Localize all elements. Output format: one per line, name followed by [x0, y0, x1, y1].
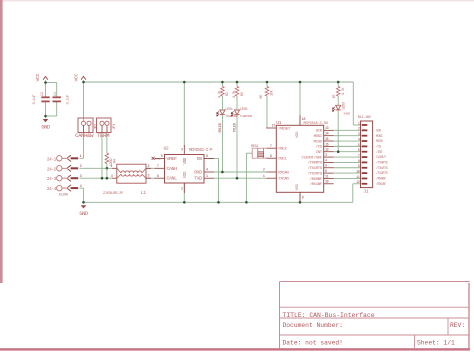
connector pin 24-2 — [47, 165, 82, 172]
svg-text:GND: GND — [41, 124, 50, 131]
wire OSC1 net: resonator to U1 OSC1 — [252, 157, 266, 159]
IC U2 MCP2551 CAN transceiver — [155, 145, 215, 193]
svg-text:VDD: VDD — [183, 157, 188, 164]
power VCC symbol P+2 — [74, 73, 86, 81]
svg-text:/TX2RTS: /TX2RTS — [376, 171, 388, 175]
resonator RES1 on U1 oscillator pins — [251, 145, 264, 158]
svg-text:RXD: RXD — [194, 170, 202, 176]
svg-text:OSC1: OSC1 — [278, 158, 287, 162]
svg-text:VDD: VDD — [296, 131, 300, 138]
svg-text:24-3: 24-3 — [47, 177, 57, 182]
svg-text:TITLE: CAN-Bus-Interface: TITLE: CAN-Bus-Interface — [283, 312, 375, 319]
IC U1 MCP2515 CAN controller — [263, 115, 334, 202]
svg-text:VCC: VCC — [35, 73, 41, 81]
no-connect marker on U2 VREF pin 5 — [152, 154, 163, 161]
svg-text:16: 16 — [325, 142, 329, 146]
resistor R2 4.7k RXLED pullup — [217, 86, 230, 98]
svg-text:REV:: REV: — [450, 322, 465, 329]
node net labels at J1 — [376, 128, 388, 185]
svg-text:/CS: /CS — [316, 145, 323, 150]
svg-text:11: 11 — [356, 175, 360, 179]
svg-text:/RX0BF: /RX0BF — [310, 177, 323, 182]
jumper JP2 CANH&W — [75, 118, 98, 139]
svg-text:CLKOUT: CLKOUT — [376, 155, 386, 159]
svg-text:TERM: TERM — [97, 132, 110, 139]
svg-text:C2: C2 — [41, 92, 45, 96]
svg-text:10: 10 — [356, 170, 360, 174]
svg-text:24-4: 24-4 — [47, 187, 57, 192]
svg-text:/CS: /CS — [376, 144, 381, 148]
svg-text:GND: GND — [79, 210, 88, 217]
LED LED2 TX activity — [231, 96, 252, 118]
svg-text:/RX1BF: /RX1BF — [376, 182, 386, 186]
svg-text:VREF: VREF — [167, 156, 178, 162]
svg-text:4.7k: 4.7k — [217, 91, 222, 98]
svg-text:SCK: SCK — [316, 130, 323, 134]
svg-text:INT: INT — [316, 151, 323, 155]
svg-text:R2: R2 — [226, 92, 230, 96]
svg-text:/RX1BF: /RX1BF — [310, 182, 323, 187]
svg-text:0.1uF: 0.1uF — [67, 95, 71, 105]
svg-text:SCK: SCK — [376, 128, 381, 132]
svg-text:XL200: XL200 — [59, 194, 68, 198]
svg-text:TLHR5400: TLHR5400 — [240, 115, 252, 118]
wire INT LED tap — [337, 110, 340, 153]
node RXLED net label — [219, 123, 223, 132]
svg-text:MISO: MISO — [314, 140, 323, 144]
svg-text:R3: R3 — [241, 92, 245, 96]
svg-text:CANL: CANL — [167, 176, 178, 182]
svg-text:R4: R4 — [113, 159, 117, 163]
svg-text:RXLED: RXLED — [219, 123, 223, 132]
svg-text:MOSI: MOSI — [376, 134, 383, 138]
wire GND net: bottom ground run — [79, 153, 361, 203]
svg-text:U2: U2 — [164, 146, 169, 152]
svg-text:2: 2 — [80, 165, 82, 169]
wire jumper JP1 to termination resistor — [106, 133, 108, 154]
svg-text:12: 12 — [325, 148, 329, 152]
svg-text:MOSI: MOSI — [314, 135, 322, 139]
svg-text:TXLED: TXLED — [234, 123, 238, 132]
svg-text:24-2: 24-2 — [47, 167, 57, 172]
wire CANL net: 24-3 to choke, jumper tap — [79, 133, 111, 180]
wire RXD net: U2 RXD to U1 RXCAN with RXLED tap — [214, 115, 266, 174]
wire RESET net: pullup resistor to U1 /RESET — [265, 96, 268, 128]
svg-text:/RESET: /RESET — [278, 126, 291, 131]
svg-text:R7: R7 — [333, 95, 337, 99]
common-mode choke L1 ZJYS81R5-2P — [103, 164, 151, 196]
wire OSC2 net: resonator to U1 OSC2 — [252, 147, 266, 149]
svg-text:LED3: LED3 — [343, 102, 347, 109]
svg-text:11: 11 — [325, 174, 329, 178]
svg-text:MISO: MISO — [376, 139, 383, 143]
LED LED3 power indicator — [333, 96, 351, 116]
svg-text:BL1-180: BL1-180 — [358, 116, 371, 120]
svg-text:RXCAN: RXCAN — [278, 171, 289, 175]
svg-text:VCC: VCC — [74, 73, 80, 81]
svg-text:VSS: VSS — [296, 183, 300, 190]
wire VCC cap branch — [44, 80, 57, 118]
svg-text:10: 10 — [325, 180, 329, 184]
svg-text:14: 14 — [325, 132, 329, 136]
svg-text:CLKOUT/SOF: CLKOUT/SOF — [301, 155, 322, 160]
svg-text:LED1: LED1 — [225, 108, 232, 112]
svg-text:/TX0RTS: /TX0RTS — [308, 161, 323, 166]
svg-text:5400: 5400 — [344, 112, 351, 116]
node TXLED net label — [234, 123, 238, 132]
svg-text:12: 12 — [356, 180, 360, 184]
svg-text:/TX0RTS: /TX0RTS — [376, 161, 388, 165]
connector pin 24-1 — [47, 155, 82, 162]
svg-text:13: 13 — [325, 126, 329, 130]
svg-text:U1: U1 — [276, 120, 281, 126]
wire TXD net: U2 TXD to U1 TXCAN with TXLED tap — [214, 115, 266, 180]
svg-text:ZJYS81R5-2P: ZJYS81R5-2P — [103, 192, 123, 196]
svg-text:VSS: VSS — [183, 171, 188, 178]
ground GND symbol at 24-4 — [79, 205, 88, 217]
svg-text:18: 18 — [302, 117, 306, 121]
resistor R4 120 ohm termination — [105, 153, 117, 166]
svg-text:R6: R6 — [260, 95, 264, 99]
svg-text:24-1: 24-1 — [47, 157, 57, 162]
wire VCC net: supply rail and branches — [79, 80, 361, 158]
jumper JP1 TERM — [97, 118, 117, 139]
svg-text:/TX1RTS: /TX1RTS — [308, 166, 323, 171]
capacitor C1 — [53, 91, 71, 104]
svg-text:/TX1RTS: /TX1RTS — [376, 166, 388, 170]
svg-text:JP1: JP1 — [113, 124, 117, 130]
svg-text:LED2: LED2 — [240, 108, 247, 112]
svg-text:Sheet: 1/1: Sheet: 1/1 — [417, 340, 455, 347]
svg-text:3: 3 — [80, 175, 82, 179]
resistor R3 4.7k TXLED pullup — [232, 86, 245, 98]
svg-text:L1: L1 — [141, 190, 146, 196]
svg-text:CANH: CANH — [167, 166, 178, 172]
connector pin 24-4 — [47, 185, 82, 198]
wire CANL2: choke to U2 CANL — [146, 177, 155, 179]
svg-text:TXCAN: TXCAN — [278, 178, 289, 182]
wire CANH2: choke to U2 CANH — [146, 167, 155, 169]
svg-text:/INT: /INT — [376, 150, 383, 154]
svg-text:15: 15 — [325, 137, 329, 141]
capacitor C2 — [33, 92, 50, 104]
svg-text:4.7k: 4.7k — [341, 88, 346, 95]
svg-text:4: 4 — [80, 185, 82, 189]
svg-text:J1: J1 — [363, 189, 368, 195]
svg-text:/RX0BF: /RX0BF — [376, 177, 386, 181]
svg-text:Document Number:: Document Number: — [283, 322, 343, 329]
svg-text:TXD: TXD — [194, 176, 202, 182]
svg-text:17: 17 — [272, 124, 276, 128]
svg-text:4.7k: 4.7k — [232, 91, 237, 98]
svg-text:RS: RS — [197, 156, 203, 162]
svg-text:OSC2: OSC2 — [278, 148, 287, 152]
resistor R6 10k reset pullup — [260, 86, 275, 98]
power VCC symbol P+1 — [35, 73, 48, 81]
resistor R7 4.7k LED3 dropper — [333, 86, 346, 98]
ground GND symbol under capacitors — [41, 119, 50, 131]
connector J1 BL1-180 header — [356, 116, 372, 194]
svg-text:/TX2RTS: /TX2RTS — [308, 171, 323, 176]
LED LED1 RX activity — [217, 96, 238, 118]
svg-text:CANH&W: CANH&W — [75, 132, 94, 139]
wire CANH net: 24-2 to choke, termination tap — [79, 164, 111, 170]
wire SPI and control nets: U1 to J1 pins 2-11 — [334, 130, 362, 178]
svg-text:MCP2551-I-P: MCP2551-I-P — [189, 149, 213, 153]
connector pin 24-3 — [47, 175, 82, 182]
svg-text:10k: 10k — [269, 90, 274, 96]
svg-text:1: 1 — [80, 155, 82, 159]
svg-text:0.1uF: 0.1uF — [33, 95, 37, 105]
svg-text:Date: not saved!: Date: not saved! — [283, 340, 343, 347]
